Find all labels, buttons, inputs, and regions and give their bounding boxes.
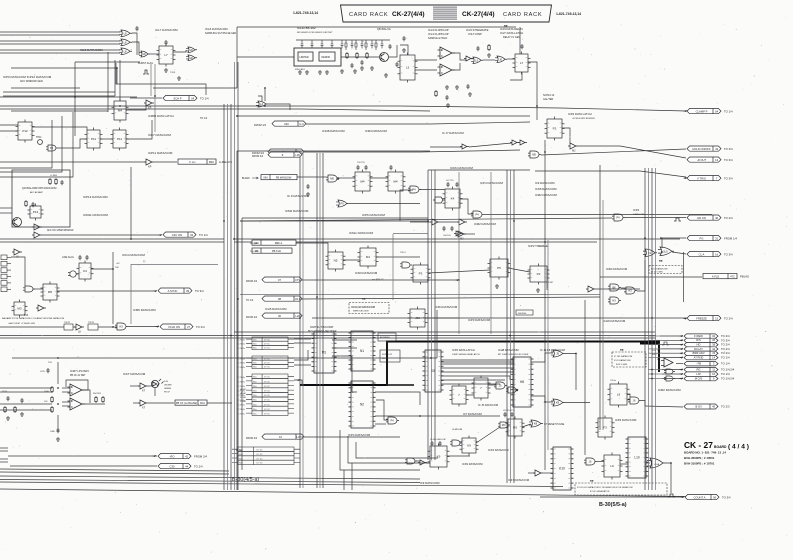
- left edge ticks bottom: [0, 448, 8, 462]
- svg-text:TP11: TP11: [36, 136, 42, 139]
- wire rows c out: [294, 380, 302, 385]
- wire m4a to m4b: [370, 177, 388, 179]
- transistor Q50: [380, 53, 389, 62]
- svg-text:IC K10,L10 DATA/COM IC J6 DATA: IC K10,L10 DATA/COM IC J6 DATA/COM IC D8…: [577, 486, 633, 489]
- svg-text:TO 1/4: TO 1/4: [721, 356, 730, 360]
- svg-text:BAL/AMP ICP14 DATA/COM IC 8 DA: BAL/AMP ICP14 DATA/COM IC 8 DATA/COM ICM…: [2, 317, 64, 320]
- ground g7: [445, 85, 449, 89]
- wire ctl run: [302, 279, 460, 281]
- arrow counta: [680, 496, 684, 498]
- gate UR: [664, 369, 675, 374]
- svg-text:TO 3/4: TO 3/4: [724, 147, 733, 151]
- gate L4: [256, 101, 268, 107]
- arrow ro: [152, 455, 156, 457]
- svg-text:L10: L10: [634, 456, 640, 460]
- svg-text:L53 P5-4P7: L53 P5-4P7: [503, 410, 514, 412]
- svg-text:CK - 27: CK - 27: [684, 440, 713, 450]
- wire left in 388: [0, 387, 52, 389]
- svg-text:08: 08: [278, 297, 281, 301]
- svg-text:ICMT 1L/TRI/COMP: ICMT 1L/TRI/COMP: [310, 325, 334, 329]
- svg-text:KT: KT: [142, 407, 146, 410]
- svg-text:ADDRESS: ADDRESS: [380, 336, 390, 339]
- svg-text:ICH9 DATA/COM: ICH9 DATA/COM: [603, 319, 626, 323]
- resistor R30: [51, 386, 53, 393]
- svg-text:L30: L30: [295, 153, 300, 157]
- svg-text:07: 07: [278, 278, 281, 282]
- svg-text:B-30(5/5-a): B-30(5/5-a): [599, 502, 627, 508]
- wire to async: [57, 290, 156, 292]
- svg-text:SAMPLING SCH PULSE GEN: SAMPLING SCH PULSE GEN: [205, 32, 236, 35]
- wire j6b to l9: [597, 461, 604, 463]
- wire vbus d 1: [506, 170, 508, 483]
- svg-text:AFC WINDOW GEN: AFC WINDOW GEN: [20, 80, 43, 83]
- capacitor C77: [445, 95, 448, 100]
- capacitor net C88: [381, 40, 384, 48]
- svg-text:FREEZE: FREEZE: [696, 316, 707, 320]
- flip-flop L9b: [602, 453, 623, 480]
- LIMITER block: [298, 52, 313, 61]
- wire fan HD: [648, 344, 662, 346]
- svg-text:T0/FT: T0/FT: [548, 282, 554, 284]
- wire l9 to l10: [620, 463, 628, 465]
- wire p4a in: [400, 190, 413, 221]
- wire vbus left 2: [227, 104, 229, 490]
- svg-text:BVH-3100PS ; # 10701: BVH-3100PS ; # 10701: [684, 462, 715, 466]
- svg-text:BLANK: BLANK: [242, 177, 250, 180]
- svg-text:C04 105: C04 105: [443, 235, 451, 237]
- wire long 358: [12, 357, 437, 359]
- gate L10A: [647, 458, 667, 468]
- wire v75: [74, 62, 76, 136]
- connector R/S: [684, 338, 718, 342]
- svg-text:TO 2/4: TO 2/4: [724, 316, 733, 320]
- arrow async: [153, 290, 157, 292]
- wire L4 top: [258, 96, 262, 101]
- svg-text:DY 3C: DY 3C: [264, 414, 271, 416]
- wire left 392: [0, 391, 52, 393]
- wire v683: [683, 252, 685, 302]
- svg-text:IF D/F GENERATOR: IF D/F GENERATOR: [590, 490, 610, 493]
- gate flag d: [433, 197, 445, 203]
- svg-text:P4: P4: [412, 188, 416, 192]
- wire icp3 out: [463, 233, 475, 235]
- capacitor C95: [360, 60, 363, 65]
- svg-text:JUMP SENSE DATA LATCH: JUMP SENSE DATA LATCH: [452, 353, 480, 356]
- thick elbow right: [640, 343, 659, 345]
- svg-text:DY 3C: DY 3C: [264, 386, 271, 388]
- gate M5a: [528, 151, 541, 158]
- svg-text:L/R: L/R: [696, 372, 700, 376]
- capacitor L53: [503, 412, 506, 417]
- svg-text:(A)-A2: (A)-A2: [240, 392, 247, 395]
- wire h62: [75, 61, 140, 63]
- svg-text:C-C: C-C: [299, 122, 304, 126]
- connector CL A: [687, 252, 721, 257]
- svg-text:DY 3C: DY 3C: [264, 363, 271, 365]
- svg-text:TO 2/4: TO 2/4: [724, 216, 733, 220]
- ground g15: [20, 412, 24, 416]
- gate K8b: [529, 420, 543, 427]
- svg-text:AFC ON 1/05M WINDOW: AFC ON 1/05M WINDOW: [47, 229, 74, 232]
- svg-text:IC 9 DATA/COM: IC 9 DATA/COM: [287, 194, 309, 198]
- buffer IC47: [533, 470, 543, 476]
- svg-text:42: 42: [712, 347, 715, 351]
- svg-text:K10: K10: [559, 467, 565, 471]
- connector RG: [684, 367, 718, 371]
- svg-text:M O/S: M O/S: [695, 376, 703, 380]
- wire fan LR2: [648, 373, 662, 375]
- wire to RG: [662, 369, 683, 371]
- svg-text:FROM 1/4: FROM 1/4: [254, 123, 267, 127]
- flip-flop F3: [596, 416, 615, 440]
- wire long clamp: [0, 106, 686, 111]
- wire v117: [116, 68, 118, 84]
- wire m1 to n1: [332, 339, 357, 341]
- wire L4 riser: [264, 88, 266, 101]
- svg-text:15: 15: [715, 316, 718, 320]
- svg-text:FREQ ADJ: FREQ ADJ: [295, 68, 305, 71]
- connector A FLD: [703, 274, 737, 279]
- thick bus wire 2: [387, 384, 414, 386]
- wire L7b bottom: [510, 72, 522, 80]
- wire opamp in d: [62, 405, 70, 407]
- wire bigbox left: [130, 167, 132, 239]
- wire fan R/S: [648, 339, 662, 341]
- svg-text:ICP11 DATA/COM: ICP11 DATA/COM: [148, 151, 173, 155]
- svg-text:KT: KT: [142, 390, 146, 393]
- wire P12 in1: [0, 124, 18, 126]
- svg-text:B0U: B0U: [209, 160, 214, 164]
- svg-text:L07 T20: L07 T20: [446, 180, 454, 182]
- gate P4a: [408, 186, 421, 193]
- op-amp M7b: [68, 398, 86, 410]
- svg-text:ICN1,N2 DATA/COM: ICN1,N2 DATA/COM: [351, 305, 375, 309]
- wire vbus right 3: [651, 168, 653, 490]
- wire to afc pill: [42, 234, 161, 236]
- arrow AT RND: [679, 357, 683, 359]
- svg-text:ICKT DATA/COM: ICKT DATA/COM: [123, 372, 146, 376]
- wire j06 out: [425, 317, 460, 319]
- buffer L5a: [464, 56, 473, 61]
- wire into L3: [400, 45, 408, 55]
- svg-text:TO 3/4: TO 3/4: [722, 495, 731, 499]
- gate J6b: [584, 458, 597, 465]
- wire vbus mid 3: [316, 153, 318, 488]
- wire h3 up: [637, 260, 645, 291]
- ground g11: [402, 48, 406, 52]
- svg-text:FROM 2/4: FROM 2/4: [194, 454, 207, 458]
- wire bl 484: [0, 482, 563, 487]
- svg-text:DY 3C: DY 3C: [264, 409, 271, 411]
- svg-text:Y-10M: Y-10M: [240, 401, 246, 403]
- connector C30: [158, 464, 191, 469]
- svg-text:L20: L20: [295, 314, 300, 318]
- svg-text:RG: RG: [696, 367, 700, 371]
- IC K5 jump latch: [423, 350, 444, 392]
- flip-flop ICK7b: [111, 128, 129, 151]
- connector rows B: [246, 356, 294, 369]
- capacitor C76: [466, 84, 469, 89]
- wire vbus left 3: [230, 104, 232, 490]
- wire vbus right 4: [655, 168, 657, 490]
- gate P4r: [612, 214, 625, 221]
- wire fan RG2: [648, 369, 662, 371]
- connector FREEZE: [687, 316, 721, 321]
- burst box corner: [116, 57, 237, 95]
- svg-text:M3: M3: [17, 307, 21, 311]
- capacitor C111: [438, 441, 441, 446]
- ground g5b: [340, 69, 344, 73]
- wire vbus mid 1: [299, 153, 301, 488]
- wire refa to n5: [296, 243, 328, 252]
- svg-text:02: 02: [190, 233, 193, 237]
- wire input bus 4: [0, 43, 120, 45]
- svg-text:10: 10: [279, 435, 282, 439]
- wire input bus 3: [0, 40, 120, 42]
- wire long 338: [0, 337, 656, 339]
- svg-text:VOLT COMP: VOLT COMP: [468, 33, 482, 36]
- svg-text:2L9: 2L9: [663, 249, 668, 253]
- svg-text:ICL7 DATA/COM: ICL7 DATA/COM: [155, 28, 178, 32]
- resistor R61: [346, 52, 348, 59]
- capacitor net C87: [371, 40, 374, 48]
- svg-text:TO 1/4,2/4: TO 1/4,2/4: [721, 368, 735, 372]
- svg-text:DELAY: DELAY: [382, 357, 389, 360]
- wire input bus 2: [0, 34, 120, 36]
- arrow F REW: [679, 335, 683, 337]
- wire L7 down to ICP2: [528, 62, 537, 120]
- box J-MODEL: [516, 310, 533, 315]
- bus tap column: [1, 255, 11, 292]
- svg-text:LED/BM: LED/BM: [164, 385, 172, 387]
- wire vcld 3: [98, 326, 117, 328]
- svg-text:M4: M4: [393, 180, 397, 184]
- flip-flop K9b: [428, 444, 450, 470]
- wire vbus d 3: [513, 170, 515, 483]
- svg-text:LIMITER: LIMITER: [300, 57, 309, 59]
- svg-text:AFC ON: AFC ON: [172, 233, 182, 237]
- connector HOLD ON/OFF: [687, 146, 721, 151]
- wire left 404: [0, 403, 52, 405]
- big box mid top edge: [237, 151, 430, 490]
- flip-flop L9a: [608, 382, 630, 408]
- svg-text:TO 2/4: TO 2/4: [194, 464, 203, 468]
- svg-text:C30: C30: [170, 464, 175, 468]
- svg-text:FROM 2/4: FROM 2/4: [246, 437, 258, 440]
- svg-text:27: 27: [187, 325, 190, 329]
- wire input bus 1: [0, 31, 120, 33]
- resistor R33: [4, 406, 6, 413]
- capacitor C90: [395, 62, 398, 67]
- svg-text:GREEN: GREEN: [164, 388, 172, 390]
- wire b6-h3: [621, 287, 626, 289]
- buffer M2b: [456, 231, 466, 237]
- connector FROM 3-4 top: [268, 152, 302, 157]
- capacitor C79: [520, 44, 523, 49]
- capacitor C91: [6, 396, 9, 401]
- wire vcld 2: [73, 326, 76, 328]
- wire opamp out a: [452, 53, 466, 60]
- DEMOD block: [319, 52, 335, 61]
- wire to DCLAY: [660, 348, 683, 350]
- wire l9a to j6: [627, 394, 630, 397]
- connector L/R: [684, 372, 718, 376]
- svg-text:CK-27(4/4): CK-27(4/4): [392, 11, 425, 18]
- svg-text:M5: M5: [48, 290, 52, 294]
- wire L3 to opamp: [415, 59, 437, 61]
- connector REF A: [252, 240, 296, 245]
- svg-text:Q50 BAL/1G: Q50 BAL/1G: [377, 28, 391, 31]
- wire vbus c 3: [434, 170, 436, 460]
- connector VCLD ON: [160, 324, 193, 329]
- flip-flop N5: [326, 250, 346, 272]
- wire tap to m5: [11, 257, 25, 286]
- svg-text:P4: P4: [475, 213, 479, 217]
- capacitor T20c: [85, 255, 88, 260]
- wire rows to m1d: [294, 364, 311, 366]
- ground g5d: [370, 66, 374, 70]
- wire ick4 box top: [131, 264, 218, 266]
- svg-text:ICM2 DATA/COM: ICM2 DATA/COM: [285, 209, 309, 213]
- svg-text:DY 3C: DY 3C: [256, 463, 263, 465]
- ground g4: [318, 70, 322, 74]
- wire k5 to h8 2: [441, 367, 514, 369]
- ground g5: [353, 69, 357, 73]
- gate J6c: [628, 397, 641, 404]
- svg-text:M1: M1: [366, 255, 370, 259]
- ground g3: [298, 70, 302, 74]
- wire vbus right 1: [644, 168, 646, 490]
- svg-text:K4: K4: [451, 197, 455, 201]
- gate f1: [450, 440, 462, 446]
- svg-text:ICM2 DATA/COM: ICM2 DATA/COM: [535, 193, 557, 197]
- wire m1 to n1b: [332, 347, 357, 349]
- svg-text:34: 34: [712, 334, 715, 338]
- wire m7 feedback: [66, 380, 88, 390]
- svg-text:VCLD ON: VCLD ON: [168, 325, 180, 329]
- svg-text:DCLAY: DCLAY: [694, 347, 703, 351]
- wire m5 gate: [33, 288, 43, 290]
- wire L5 to J6: [483, 59, 495, 61]
- svg-text:ICP4: ICP4: [633, 208, 640, 212]
- gate 2L9: [658, 247, 674, 256]
- connector PB CF: [175, 400, 207, 405]
- OR gate L8b: [119, 39, 132, 46]
- svg-text:K4: K4: [83, 269, 87, 273]
- capacitor C21: [31, 202, 34, 207]
- svg-text:IC108 DATA/COM: IC108 DATA/COM: [322, 129, 345, 133]
- arrow vtrig: [683, 177, 687, 179]
- ground g13: [56, 437, 60, 441]
- connector F REW: [684, 334, 718, 338]
- buffer KP1: [144, 100, 154, 106]
- svg-text:42: 42: [185, 454, 188, 458]
- wire j6 out: [641, 401, 645, 407]
- flip-flop P5: [488, 257, 511, 280]
- wire opamp feed2: [57, 415, 59, 432]
- arrow rowsc: [296, 379, 300, 381]
- flip-flop ICL3: [398, 53, 418, 83]
- flip-flop M4a: [353, 170, 373, 194]
- buffer a1: [32, 224, 42, 230]
- wire to AT RND: [660, 357, 683, 359]
- svg-text:/BRK ADV: /BRK ADV: [692, 351, 705, 355]
- buffer L8g: [74, 324, 84, 330]
- wire from34 run: [304, 150, 520, 152]
- wire v151: [150, 64, 152, 96]
- svg-text:ICL6 DATA/COM: ICL6 DATA/COM: [205, 27, 228, 31]
- wire vbus g2: [602, 200, 604, 430]
- wire k8 out: [565, 402, 590, 404]
- pulse symbol count: [668, 494, 675, 497]
- svg-text:F H x: F H x: [189, 160, 196, 164]
- wire rows to m1c: [294, 350, 308, 360]
- svg-text:M1: M1: [322, 351, 327, 355]
- svg-text:TO 3/4: TO 3/4: [724, 158, 733, 162]
- resistor R04: [95, 396, 97, 403]
- gate J5: [494, 382, 507, 389]
- svg-text:IC47 DATA/COM: IC47 DATA/COM: [508, 478, 530, 482]
- svg-text:LINE FLAG: LINE FLAG: [62, 256, 74, 259]
- dashed box ICL9: [649, 266, 682, 274]
- capacitor C94: [350, 63, 353, 68]
- IC N1 wire decoder: [349, 331, 376, 371]
- svg-text:**: **: [362, 297, 366, 302]
- svg-text:-RO: -RO: [170, 454, 175, 458]
- flip-flop L7b: [513, 52, 531, 75]
- connector DCLAY: [684, 347, 718, 351]
- svg-text:TO 1/4: TO 1/4: [246, 299, 254, 302]
- arrow /BRK ADV: [679, 352, 683, 354]
- ground g10: [446, 103, 450, 107]
- wire long freeze: [312, 317, 686, 319]
- ground g3b: [305, 70, 309, 74]
- wire L4 out: [268, 104, 290, 110]
- resistor R70: [435, 90, 437, 97]
- svg-text:-R OUT: -R OUT: [697, 158, 707, 162]
- svg-text:IC J7 DATA/COM: IC J7 DATA/COM: [442, 131, 464, 135]
- ground g18: [536, 288, 540, 292]
- svg-text:DY 3C: DY 3C: [264, 348, 271, 350]
- connector rows A: [246, 337, 294, 350]
- svg-text:ICL9 DATA/COM: ICL9 DATA/COM: [651, 268, 668, 271]
- wire fan F REW: [648, 335, 662, 337]
- wire f2-f3: [415, 460, 420, 462]
- wire k5-h8 b: [441, 363, 514, 365]
- svg-text:P11: P11: [91, 137, 96, 141]
- wire ic47 out: [543, 472, 553, 474]
- svg-text:1-621-749-13,14: 1-621-749-13,14: [556, 12, 581, 16]
- wire P2 out: [562, 128, 570, 143]
- wire bigbox bottom 2: [0, 241, 224, 243]
- wire bl 477: [0, 476, 420, 479]
- svg-text:ICM4 DATA/COM: ICM4 DATA/COM: [365, 129, 387, 133]
- wire long hdon: [240, 218, 612, 221]
- ground g6: [384, 73, 388, 77]
- gate H3c: [115, 323, 128, 330]
- svg-text:ICH5 DATA/COM: ICH5 DATA/COM: [265, 307, 287, 311]
- svg-text:IC9 DATA/COM: IC9 DATA/COM: [420, 481, 440, 485]
- capacitor net C85: [351, 40, 354, 48]
- arrow ctl: [455, 279, 459, 281]
- svg-text:P5: P5: [497, 266, 501, 270]
- svg-text:ICL9 DATA/COM: ICL9 DATA/COM: [614, 359, 631, 362]
- dashed box ICJ45: [612, 352, 646, 367]
- wire k9b out: [447, 455, 470, 457]
- wire to afld: [600, 276, 702, 278]
- wire ick4 box edge: [130, 264, 132, 324]
- svg-text:DY 3C: DY 3C: [264, 344, 271, 346]
